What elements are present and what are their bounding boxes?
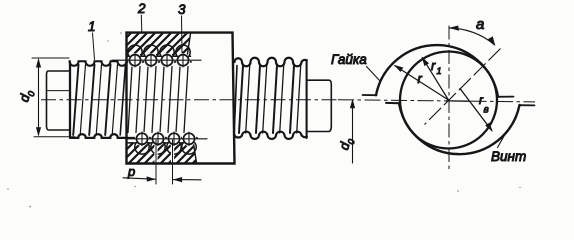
ball B6 xyxy=(152,132,163,146)
ball B5 xyxy=(136,132,147,146)
ball row centerline (top) xyxy=(112,59,201,61)
leader for Gaika xyxy=(367,67,381,82)
diagonal contact axis xyxy=(425,49,501,125)
screw left end plain cylinder xyxy=(46,71,70,130)
screw crest flat right xyxy=(520,104,535,106)
white channels for p extension lines through hatch xyxy=(154,145,174,163)
svg-text:Винт: Винт xyxy=(491,149,526,164)
dimension d0 (left view) bottom arrowhead xyxy=(36,127,41,136)
angle a arrowhead left xyxy=(449,26,459,31)
svg-text:1: 1 xyxy=(88,19,96,34)
wire: screw axis centerline (left view) xyxy=(41,99,338,101)
svg-text:2: 2 xyxy=(137,1,146,16)
nut top hatch band xyxy=(104,24,220,60)
nut groove arc xyxy=(376,45,498,97)
nut crest flat left xyxy=(363,94,377,96)
angle a dimension arc xyxy=(449,28,495,45)
dimension d0 (left view) top arrowhead xyxy=(36,58,41,67)
dimension p left arrowhead xyxy=(147,176,156,181)
screw crest segments between balls (bottom, inside nut) xyxy=(127,137,198,139)
nut groove scallops under balls (bottom) xyxy=(127,132,196,155)
dimension d0 (profile view) line xyxy=(352,101,354,164)
nut crest flat right xyxy=(498,96,514,98)
nut bottom hatch boundary xyxy=(194,144,197,164)
ball B2 xyxy=(145,53,156,67)
screw thread flank lines inside nut xyxy=(128,67,188,133)
vertical centerline (profile view) xyxy=(448,26,450,170)
svg-text:Гайка: Гайка xyxy=(331,52,367,67)
screw right thread top crest line xyxy=(235,58,307,67)
angle a arrowhead right xyxy=(488,36,495,45)
dimension p right arrowhead xyxy=(173,177,182,182)
radius rb arrow xyxy=(460,89,492,131)
screw right thread end face xyxy=(306,60,308,138)
paper specks xyxy=(7,32,521,207)
leader for label 3 xyxy=(181,16,184,53)
screw right end stub xyxy=(307,80,332,131)
screw groove arc xyxy=(399,103,520,154)
dimension p left arrow line xyxy=(123,178,155,179)
radius r1 arrow xyxy=(422,58,448,100)
screw left thread top crest line xyxy=(70,61,127,65)
label d0 (profile view) xyxy=(336,136,356,152)
svg-text:в: в xyxy=(484,105,489,116)
ball circle (profile view) xyxy=(400,52,497,149)
ball row centerline (bottom) xyxy=(126,138,207,140)
radius r arrow xyxy=(395,66,449,100)
screw left thread shoulder xyxy=(69,63,71,136)
dimension p extension lines xyxy=(156,140,173,184)
svg-text:r: r xyxy=(431,58,436,73)
svg-text:r: r xyxy=(418,71,423,86)
dimension d0 (profile view) arrowhead xyxy=(350,99,355,108)
dimension p right arrow line xyxy=(173,179,201,181)
screw right thread flank lines xyxy=(234,66,301,134)
ball B8 xyxy=(183,132,194,146)
leader for label 2 xyxy=(140,15,143,32)
screw left thread bottom crest line xyxy=(70,134,126,138)
nut body outline xyxy=(127,33,235,164)
nut bottom hatch band xyxy=(106,134,230,170)
screw crest segments between balls (top, inside nut) xyxy=(127,61,192,63)
label d0 (left view) xyxy=(16,88,36,104)
svg-text:a: a xyxy=(476,16,484,33)
nut top hatch boundary xyxy=(187,34,190,56)
screw left thread flank lines xyxy=(73,65,125,136)
dimension d0 (left view) extension lines xyxy=(32,58,75,137)
leader for label 1 xyxy=(93,33,95,60)
ball B7 xyxy=(168,132,179,146)
ball B1 xyxy=(129,53,140,67)
horizontal centerline (profile view) xyxy=(338,100,535,102)
svg-text:1: 1 xyxy=(437,66,442,76)
svg-text:p: p xyxy=(127,164,135,179)
screw left end cylinder inner line xyxy=(47,90,70,92)
ball B3 xyxy=(161,53,172,67)
svg-text:3: 3 xyxy=(178,2,186,17)
dimension d0 (left view) dimension line xyxy=(38,60,40,136)
nut groove scallops over balls (top) xyxy=(127,45,191,67)
screw crest flat left xyxy=(386,102,400,104)
ball B4 xyxy=(177,53,188,67)
leader for Vint xyxy=(498,131,508,148)
screw right thread bottom crest line xyxy=(235,132,307,139)
centerline solid dash through ball center xyxy=(446,100,469,102)
